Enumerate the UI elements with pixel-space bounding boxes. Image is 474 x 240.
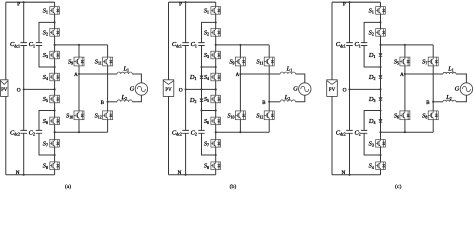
wire bridge right leg [432,45,434,57]
wire PV to N rail [5,96,7,174]
wire C2 tap to string [202,110,216,112]
diode D4 [379,119,382,122]
node P [348,1,350,3]
wire C1 to string [39,46,55,68]
svg-text:N: N [342,170,346,176]
svg-text:A: A [74,73,78,78]
capacitor C2 [198,130,204,133]
diode D2 [200,99,203,102]
string junctions [215,21,217,23]
wire DC-link bus lower [185,133,187,175]
switch S8 [211,162,221,170]
switch S3 [376,140,386,148]
svg-text:O: O [17,87,21,93]
node O [185,88,187,90]
node A [404,73,406,75]
switch S4 [211,73,221,81]
wire C1 bus upper [364,22,380,42]
capacitor C1 [198,43,204,46]
inductor L1 [443,72,456,74]
capacitor Cdc2 [20,130,27,133]
wire N rail [332,174,381,176]
wire bridge left leg [78,45,80,57]
switch S3 [211,51,221,59]
switch S1 [376,7,386,15]
switch S1 [211,7,221,15]
capacitor Cdc1 [182,43,189,46]
capacitor Cdc1 [346,43,353,46]
wire PV to P rail [331,2,333,80]
node P [23,1,25,3]
diode D1 [200,76,203,79]
wire DC-link bus lower [23,133,25,175]
switch S5 (bridge top-left) [400,57,410,66]
inductor L1 [117,72,132,74]
node N [185,174,187,176]
wire C2 bus upper [364,111,380,131]
inductor L2 [280,100,295,102]
capacitor Cdc1 [20,43,27,46]
wire O rail [350,88,381,90]
wire bridge bottom rail [381,131,434,133]
svg-text:P: P [179,2,182,8]
wire node A to L1 [240,73,280,75]
svg-text:G: G [293,85,298,92]
wire C2 return to string [364,133,380,155]
switch S1 [50,7,60,15]
wire clamp-diode bus (C1 to O to C2) [201,46,203,111]
wire N rail [169,174,216,176]
wire DC-link bus middle [185,46,187,131]
node B [268,101,270,103]
svg-text:PV: PV [329,88,336,93]
wire L1 to G [132,74,141,83]
svg-text:G: G [130,85,135,92]
switch S9 (bridge top-left) [235,57,245,66]
wire node A to L1 [79,73,117,75]
node N [23,174,25,176]
inductor L2 [117,100,132,102]
svg-text:PV: PV [1,88,8,93]
switch S7 [211,140,221,148]
bridge rail junctions [404,44,406,46]
wire PV to P rail [5,2,7,80]
node O [23,88,25,90]
switch S7 (bridge top-right) [428,57,438,66]
wire node B to L2 [108,101,117,103]
diode D1 [379,54,382,57]
capacitor C2 [361,130,367,133]
diode D2 [379,76,382,79]
switch S9 (bridge top-left) [74,57,84,66]
wire DC-link bus upper [349,2,351,42]
svg-text:(a): (a) [65,183,71,190]
node O [348,88,350,90]
switch S8 [50,162,60,170]
wire node A to L1 [405,73,443,75]
wire C2 to string [39,133,55,155]
PV source [327,80,338,97]
wire flying-cap bus lower [201,111,203,131]
wire L2 to G [456,95,466,102]
switch S11 (bridge top-right) [103,57,113,66]
switch S7 [50,140,60,148]
switch S2 [376,29,386,37]
capacitor Cdc2 [182,130,189,133]
string junctions [54,21,56,23]
wire node B to L2 [433,101,443,103]
node A [239,73,241,75]
switch S3 [50,51,60,59]
wire N rail [6,174,55,176]
wire switch string [380,2,382,6]
svg-text:P: P [343,2,346,8]
wire bridge right leg [107,45,109,57]
bridge rail junctions [78,44,80,46]
wire DC-link bus upper [185,2,187,42]
switch S2 [211,29,221,37]
wire C2 to string [202,133,216,155]
wire DC-link bus upper [23,2,25,42]
junction flying bus at O [200,88,202,90]
switch S12 (bridge bottom-right) [103,111,113,120]
wire flying-cap bus upper [202,22,216,42]
switch S8 (bridge bottom-right) [428,111,438,120]
wire bridge left leg [239,45,241,57]
svg-text:G: G [455,85,460,92]
node B [107,101,109,103]
bridge rail junctions [239,44,241,46]
svg-text:PV: PV [165,88,172,93]
switch S6 [50,117,60,125]
svg-text:N: N [178,170,182,176]
wire P rail [169,1,216,3]
wire PV to N rail [168,96,170,174]
wire L2 to G [132,95,141,102]
capacitor C2 [36,130,42,133]
wire P rail [6,1,55,3]
inductor L2 [443,100,456,102]
svg-text:O: O [179,87,183,93]
wire PV to N rail [331,96,333,174]
PV source [1,80,9,97]
capacitor C1 [36,43,42,46]
switch S6 [211,117,221,125]
wire bridge left leg [404,45,406,57]
junction flying bus taps [200,66,202,68]
wire node B to L2 [269,101,280,103]
PV source [163,80,174,97]
wire bridge top rail [381,44,434,46]
wire bridge top rail [55,44,108,46]
svg-text:O: O [343,87,347,93]
wire bridge bottom rail [216,131,270,133]
node B [432,101,434,103]
svg-text:A: A [236,73,240,78]
string junctions [379,21,381,23]
wire flying-cap bus upper [39,22,55,42]
wire bridge right leg [268,45,270,57]
node P [185,1,187,3]
wire O rail [186,88,216,90]
generator G [135,83,147,95]
svg-text:(b): (b) [230,183,237,190]
wire C2 bus upper [39,111,55,131]
switch S10 (bridge bottom-left) [74,111,84,120]
switch S11 (bridge top-right) [264,57,274,66]
capacitor Cdc2 [346,130,353,133]
diode D3 [379,98,382,101]
wire DC-link bus lower [349,133,351,175]
wire L1 to G [456,74,466,83]
wire C1 return to string [364,46,380,68]
wire switch string [54,2,56,6]
wire L1 to G [296,74,305,83]
wire PV to P rail [168,2,170,80]
switch S4 [50,73,60,81]
wire bridge bottom rail [55,131,108,133]
switch S2 [50,29,60,37]
node A [78,73,80,75]
switch S5 [50,95,60,103]
svg-text:A: A [400,73,404,78]
wire DC-link bus middle [349,46,351,131]
svg-text:P: P [17,2,20,8]
generator G [460,83,472,95]
node N [348,174,350,176]
wire C1 tap to string [202,66,216,68]
switch S5 [211,95,221,103]
wire DC-link bus middle [23,46,25,131]
switch S10 (bridge bottom-left) [235,111,245,120]
wire P rail [332,1,381,3]
svg-text:N: N [16,170,20,176]
wire bridge top rail [216,44,270,46]
wire L2 to G [296,95,305,102]
switch S12 (bridge bottom-right) [264,111,274,120]
capacitor C1 [361,43,367,46]
wire O rail [24,88,55,90]
inductor L1 [280,72,295,74]
switch S4 [376,162,386,170]
svg-text:(c): (c) [395,183,401,190]
wire switch string [215,2,217,6]
generator G [299,83,311,95]
switch S6 (bridge bottom-left) [400,111,410,120]
